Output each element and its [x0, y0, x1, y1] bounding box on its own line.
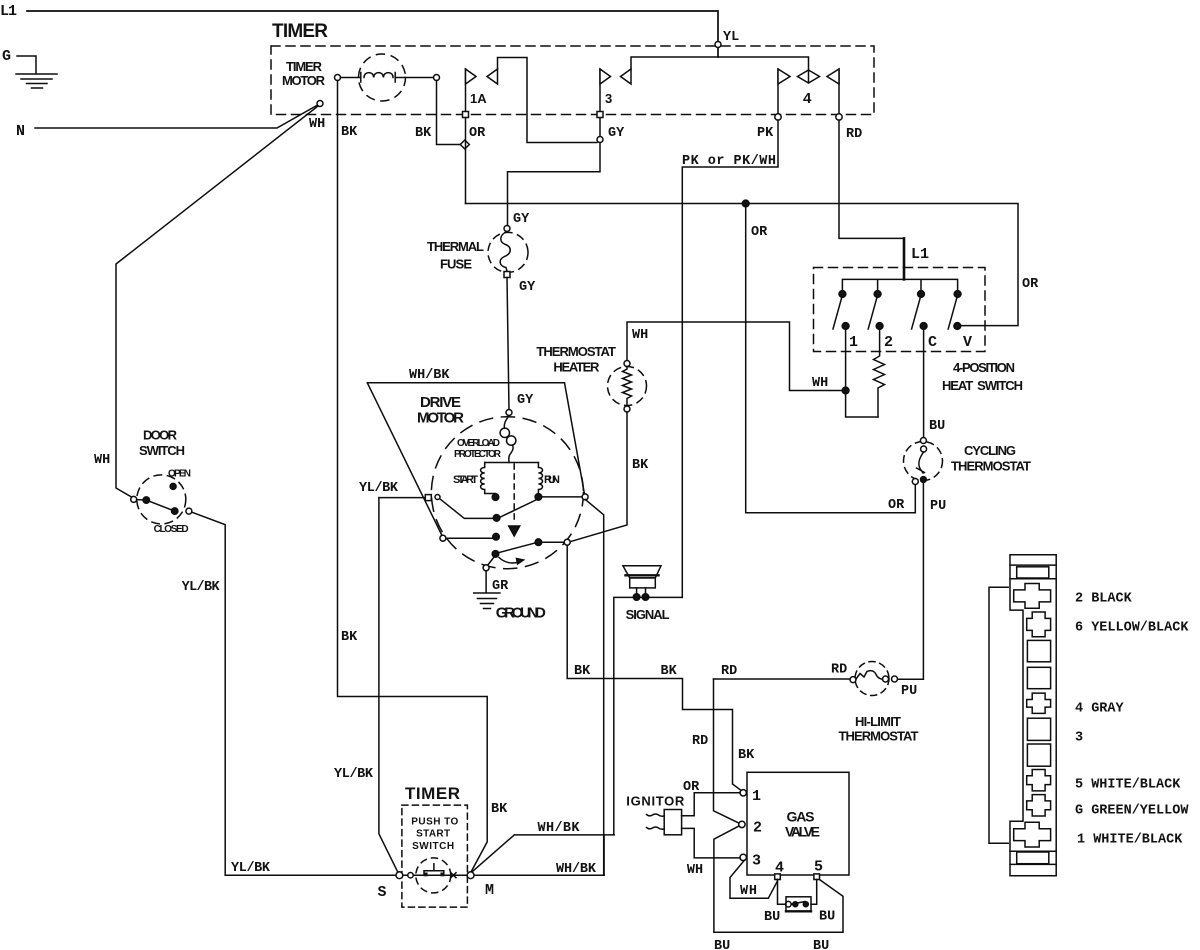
- wire BU gas valve 2 to 5: [714, 825, 843, 932]
- timer contact 1A: [465, 69, 467, 204]
- connector pin 2: [1014, 584, 1051, 609]
- svg-text:TIMER: TIMER: [272, 21, 329, 42]
- svg-text:WH/BK: WH/BK: [409, 368, 450, 383]
- svg-text:BK: BK: [738, 748, 755, 763]
- svg-text:OR: OR: [469, 126, 486, 141]
- motor start terminal: [492, 494, 499, 501]
- svg-text:2: 2: [753, 820, 762, 837]
- svg-text:WH: WH: [309, 117, 325, 132]
- svg-text:GY: GY: [513, 212, 530, 227]
- svg-text:4: 4: [803, 90, 812, 107]
- svg-text:BK: BK: [341, 125, 358, 140]
- connector cavity a: [1027, 640, 1050, 661]
- wire C to cycling thermostat: [923, 329, 925, 438]
- wire OR main: [466, 204, 1019, 326]
- svg-text:PK: PK: [757, 126, 774, 141]
- svg-text:PU: PU: [930, 499, 946, 514]
- svg-text:OR: OR: [1022, 277, 1039, 292]
- wire L1: [27, 11, 718, 57]
- node RD: [836, 114, 842, 120]
- node PK: [775, 114, 781, 120]
- heat switch pole 2: [874, 291, 881, 298]
- svg-text:1A: 1A: [470, 91, 487, 106]
- svg-text:WH: WH: [94, 453, 110, 468]
- resistor heat switch 1-2: [874, 329, 885, 417]
- svg-text:GROUND: GROUND: [496, 605, 546, 622]
- node YL/BK motor: [425, 495, 431, 501]
- gas valve box: [747, 772, 849, 875]
- thermal fuse: [488, 232, 528, 272]
- node OR diamond: [460, 140, 469, 149]
- svg-text:4: 4: [775, 860, 784, 877]
- wire WH heater to heat switch 1: [627, 322, 842, 391]
- svg-text:WH/BK: WH/BK: [556, 862, 597, 877]
- svg-text:PROTECTOR: PROTECTOR: [454, 449, 502, 460]
- svg-text:BK: BK: [415, 126, 432, 141]
- gas valve terminal 2: [739, 821, 745, 827]
- timer motor coil: [359, 54, 406, 101]
- svg-text:BK: BK: [661, 664, 678, 679]
- wire WH gas valve 3 to 4: [730, 860, 778, 898]
- svg-text:PK or PK/WH: PK or PK/WH: [682, 154, 776, 169]
- svg-text:MOTOR: MOTOR: [417, 410, 464, 427]
- wire GY fuse to motor: [507, 278, 509, 411]
- svg-text:START: START: [416, 828, 450, 839]
- svg-text:OVERLOAD: OVERLOAD: [457, 438, 500, 449]
- svg-text:BU: BU: [929, 419, 945, 434]
- svg-text:2: 2: [884, 334, 893, 351]
- wire PU to hi-limit: [898, 483, 924, 680]
- svg-text:5 WHITE/BLACK: 5 WHITE/BLACK: [1075, 778, 1181, 793]
- svg-text:VALVE: VALVE: [785, 824, 820, 840]
- svg-text:START: START: [453, 474, 478, 486]
- svg-text:GY: GY: [608, 126, 625, 141]
- motor windings: [485, 462, 539, 464]
- svg-text:YL/BK: YL/BK: [182, 580, 221, 595]
- timer contact 4: [778, 69, 839, 117]
- svg-text:OPEN: OPEN: [168, 469, 191, 480]
- svg-text:OR: OR: [888, 498, 905, 513]
- svg-text:YL/BK: YL/BK: [334, 767, 374, 782]
- node RUN circle: [582, 494, 588, 500]
- svg-text:3: 3: [605, 91, 612, 106]
- svg-text:S: S: [378, 884, 387, 901]
- svg-text:GR: GR: [492, 579, 509, 594]
- wire WH ignitor to gas valve 3: [682, 828, 740, 858]
- svg-text:BU: BU: [813, 939, 829, 950]
- svg-text:DOOR: DOOR: [143, 428, 178, 443]
- heat switch pole 1: [839, 291, 846, 298]
- svg-text:TIMER: TIMER: [405, 784, 461, 803]
- svg-text:L1: L1: [0, 3, 17, 20]
- svg-text:4 GRAY: 4 GRAY: [1075, 702, 1125, 717]
- wire OR to cycling thermostat: [746, 204, 916, 513]
- svg-text:RD: RD: [692, 734, 708, 749]
- svg-text:3: 3: [752, 853, 761, 870]
- heat switch bus: [842, 279, 957, 291]
- node YL: [715, 42, 721, 48]
- svg-text:GY: GY: [519, 280, 536, 295]
- svg-text:WH: WH: [812, 376, 828, 391]
- connector pin 5: [1027, 770, 1051, 791]
- svg-text:BK: BK: [491, 802, 508, 817]
- push to start contacts: [396, 872, 403, 879]
- wire WH/BK motor funnel: [367, 383, 584, 536]
- svg-text:G: G: [2, 48, 11, 65]
- wire YL bus to contact 4: [631, 57, 809, 70]
- wire BK coil to contact 1A: [437, 81, 461, 145]
- svg-text:SIGNAL: SIGNAL: [626, 607, 670, 622]
- svg-text:HEATER: HEATER: [553, 360, 600, 375]
- wire BK motor to gas valve: [567, 545, 742, 791]
- svg-text:BK: BK: [574, 664, 591, 679]
- svg-text:1: 1: [849, 334, 858, 351]
- svg-text:RD: RD: [831, 663, 847, 678]
- svg-text:1: 1: [752, 788, 761, 805]
- cycling thermostat: [904, 442, 943, 481]
- svg-text:WH: WH: [687, 863, 703, 878]
- svg-text:WH/BK: WH/BK: [538, 821, 581, 836]
- svg-text:G GREEN/YELLOW: G GREEN/YELLOW: [1075, 804, 1189, 819]
- wire BK timer motor left: [338, 81, 488, 873]
- svg-text:3: 3: [1075, 731, 1083, 746]
- svg-text:2 BLACK: 2 BLACK: [1075, 592, 1133, 607]
- signal buzzer: [623, 566, 661, 578]
- svg-text:CLOSED: CLOSED: [154, 524, 189, 535]
- svg-text:WH: WH: [740, 884, 757, 899]
- svg-text:OR: OR: [683, 780, 700, 795]
- svg-text:TIMER: TIMER: [286, 59, 323, 74]
- connector pin 1: [1014, 822, 1051, 847]
- gas valve terminal 1: [740, 790, 746, 796]
- svg-text:M: M: [485, 882, 494, 899]
- svg-text:PU: PU: [901, 684, 917, 699]
- wire RD to hi-limit: [714, 678, 851, 680]
- drive motor: [431, 417, 583, 569]
- svg-text:THERMOSTAT: THERMOSTAT: [536, 344, 616, 359]
- gas valve terminal 3: [740, 854, 746, 860]
- wire 1A to GY node: [498, 58, 598, 143]
- hi-limit thermostat: [855, 662, 889, 696]
- wire PK to signal: [682, 120, 778, 597]
- overload protector: [504, 416, 509, 429]
- heat switch pole C: [918, 291, 925, 298]
- connector pin 4: [1027, 693, 1051, 713]
- svg-text:FUSE: FUSE: [440, 257, 472, 272]
- svg-text:SWITCH: SWITCH: [412, 841, 454, 852]
- svg-text:4-POSITION: 4-POSITION: [953, 360, 1015, 375]
- svg-text:RD: RD: [846, 127, 862, 142]
- svg-text:RD: RD: [721, 664, 737, 679]
- wire RD to heat switch: [839, 120, 904, 238]
- svg-text:DRIVE: DRIVE: [420, 394, 461, 411]
- wire WH/BK signal to M: [472, 597, 683, 875]
- wire N neutral: [35, 105, 319, 129]
- svg-text:HI-LIMIT: HI-LIMIT: [855, 714, 901, 729]
- wire WH/BK run to M: [585, 499, 604, 875]
- motor shaft: [513, 464, 515, 523]
- connector cavity 3: [1027, 718, 1050, 740]
- svg-text:IGNITOR: IGNITOR: [626, 794, 685, 809]
- svg-text:L1: L1: [911, 246, 929, 263]
- svg-text:GAS: GAS: [787, 809, 815, 825]
- svg-text:GY: GY: [517, 393, 534, 408]
- svg-text:SWITCH: SWITCH: [139, 443, 185, 458]
- wire heat switch 1: [846, 329, 878, 417]
- gas valve terminal 4: [775, 874, 781, 880]
- svg-text:1 WHITE/BLACK: 1 WHITE/BLACK: [1077, 833, 1183, 848]
- node WH timer motor: [317, 101, 323, 107]
- svg-text:CYCLING: CYCLING: [964, 443, 1016, 458]
- svg-text:THERMAL: THERMAL: [427, 239, 484, 254]
- 4-position heat switch box: [814, 268, 986, 352]
- connector block: [1010, 555, 1056, 876]
- motor run terminal: [535, 494, 542, 501]
- svg-text:YL: YL: [723, 30, 739, 45]
- svg-text:BK: BK: [632, 458, 649, 473]
- svg-text:BK: BK: [341, 630, 358, 645]
- svg-text:RUN: RUN: [544, 474, 560, 486]
- motor centrifugal switch: [440, 499, 538, 519]
- motor ground: [488, 557, 494, 565]
- wire YL/BK to start switch: [379, 498, 398, 873]
- connector cavity b: [1027, 667, 1050, 688]
- relay gas valve 4-5: [778, 880, 786, 905]
- svg-text:WH: WH: [632, 328, 648, 343]
- svg-text:MOTOR: MOTOR: [282, 73, 326, 88]
- svg-text:HEAT SWITCH: HEAT SWITCH: [942, 378, 1023, 393]
- rotation arrow: [499, 558, 519, 564]
- wire YL/BK door to start switch: [192, 512, 604, 875]
- svg-text:PUSH TO: PUSH TO: [411, 817, 458, 828]
- svg-text:C: C: [928, 334, 937, 351]
- svg-text:YL/BK: YL/BK: [359, 481, 399, 496]
- svg-text:OR: OR: [751, 225, 768, 240]
- wire BK heater to motor: [570, 412, 627, 542]
- svg-text:BU: BU: [764, 910, 780, 925]
- svg-text:YL/BK: YL/BK: [231, 861, 271, 876]
- heat switch pole V: [954, 291, 961, 298]
- svg-text:V: V: [963, 334, 972, 351]
- svg-text:THERMOSTAT: THERMOSTAT: [951, 459, 1031, 474]
- node GY motor: [506, 410, 512, 416]
- svg-text:THERMOSTAT: THERMOSTAT: [839, 729, 919, 744]
- gas valve terminal 5: [814, 874, 820, 880]
- svg-text:BU: BU: [819, 910, 835, 925]
- svg-text:6 YELLOW/BLACK: 6 YELLOW/BLACK: [1075, 621, 1189, 636]
- wire OR ignitor to gas valve 1: [682, 793, 740, 816]
- timer contact 3: [508, 69, 601, 226]
- svg-text:BU: BU: [714, 939, 730, 950]
- svg-text:5: 5: [814, 859, 823, 876]
- svg-text:N: N: [16, 123, 25, 140]
- connector pin G: [1027, 795, 1051, 816]
- wire YL/BK to motor: [379, 497, 425, 499]
- wire RD to gas valve 2: [714, 679, 741, 824]
- junction WH: [842, 387, 849, 394]
- wire WH to door switch: [116, 106, 318, 497]
- connector pin 6: [1027, 612, 1051, 637]
- connector cavity c: [1027, 744, 1050, 766]
